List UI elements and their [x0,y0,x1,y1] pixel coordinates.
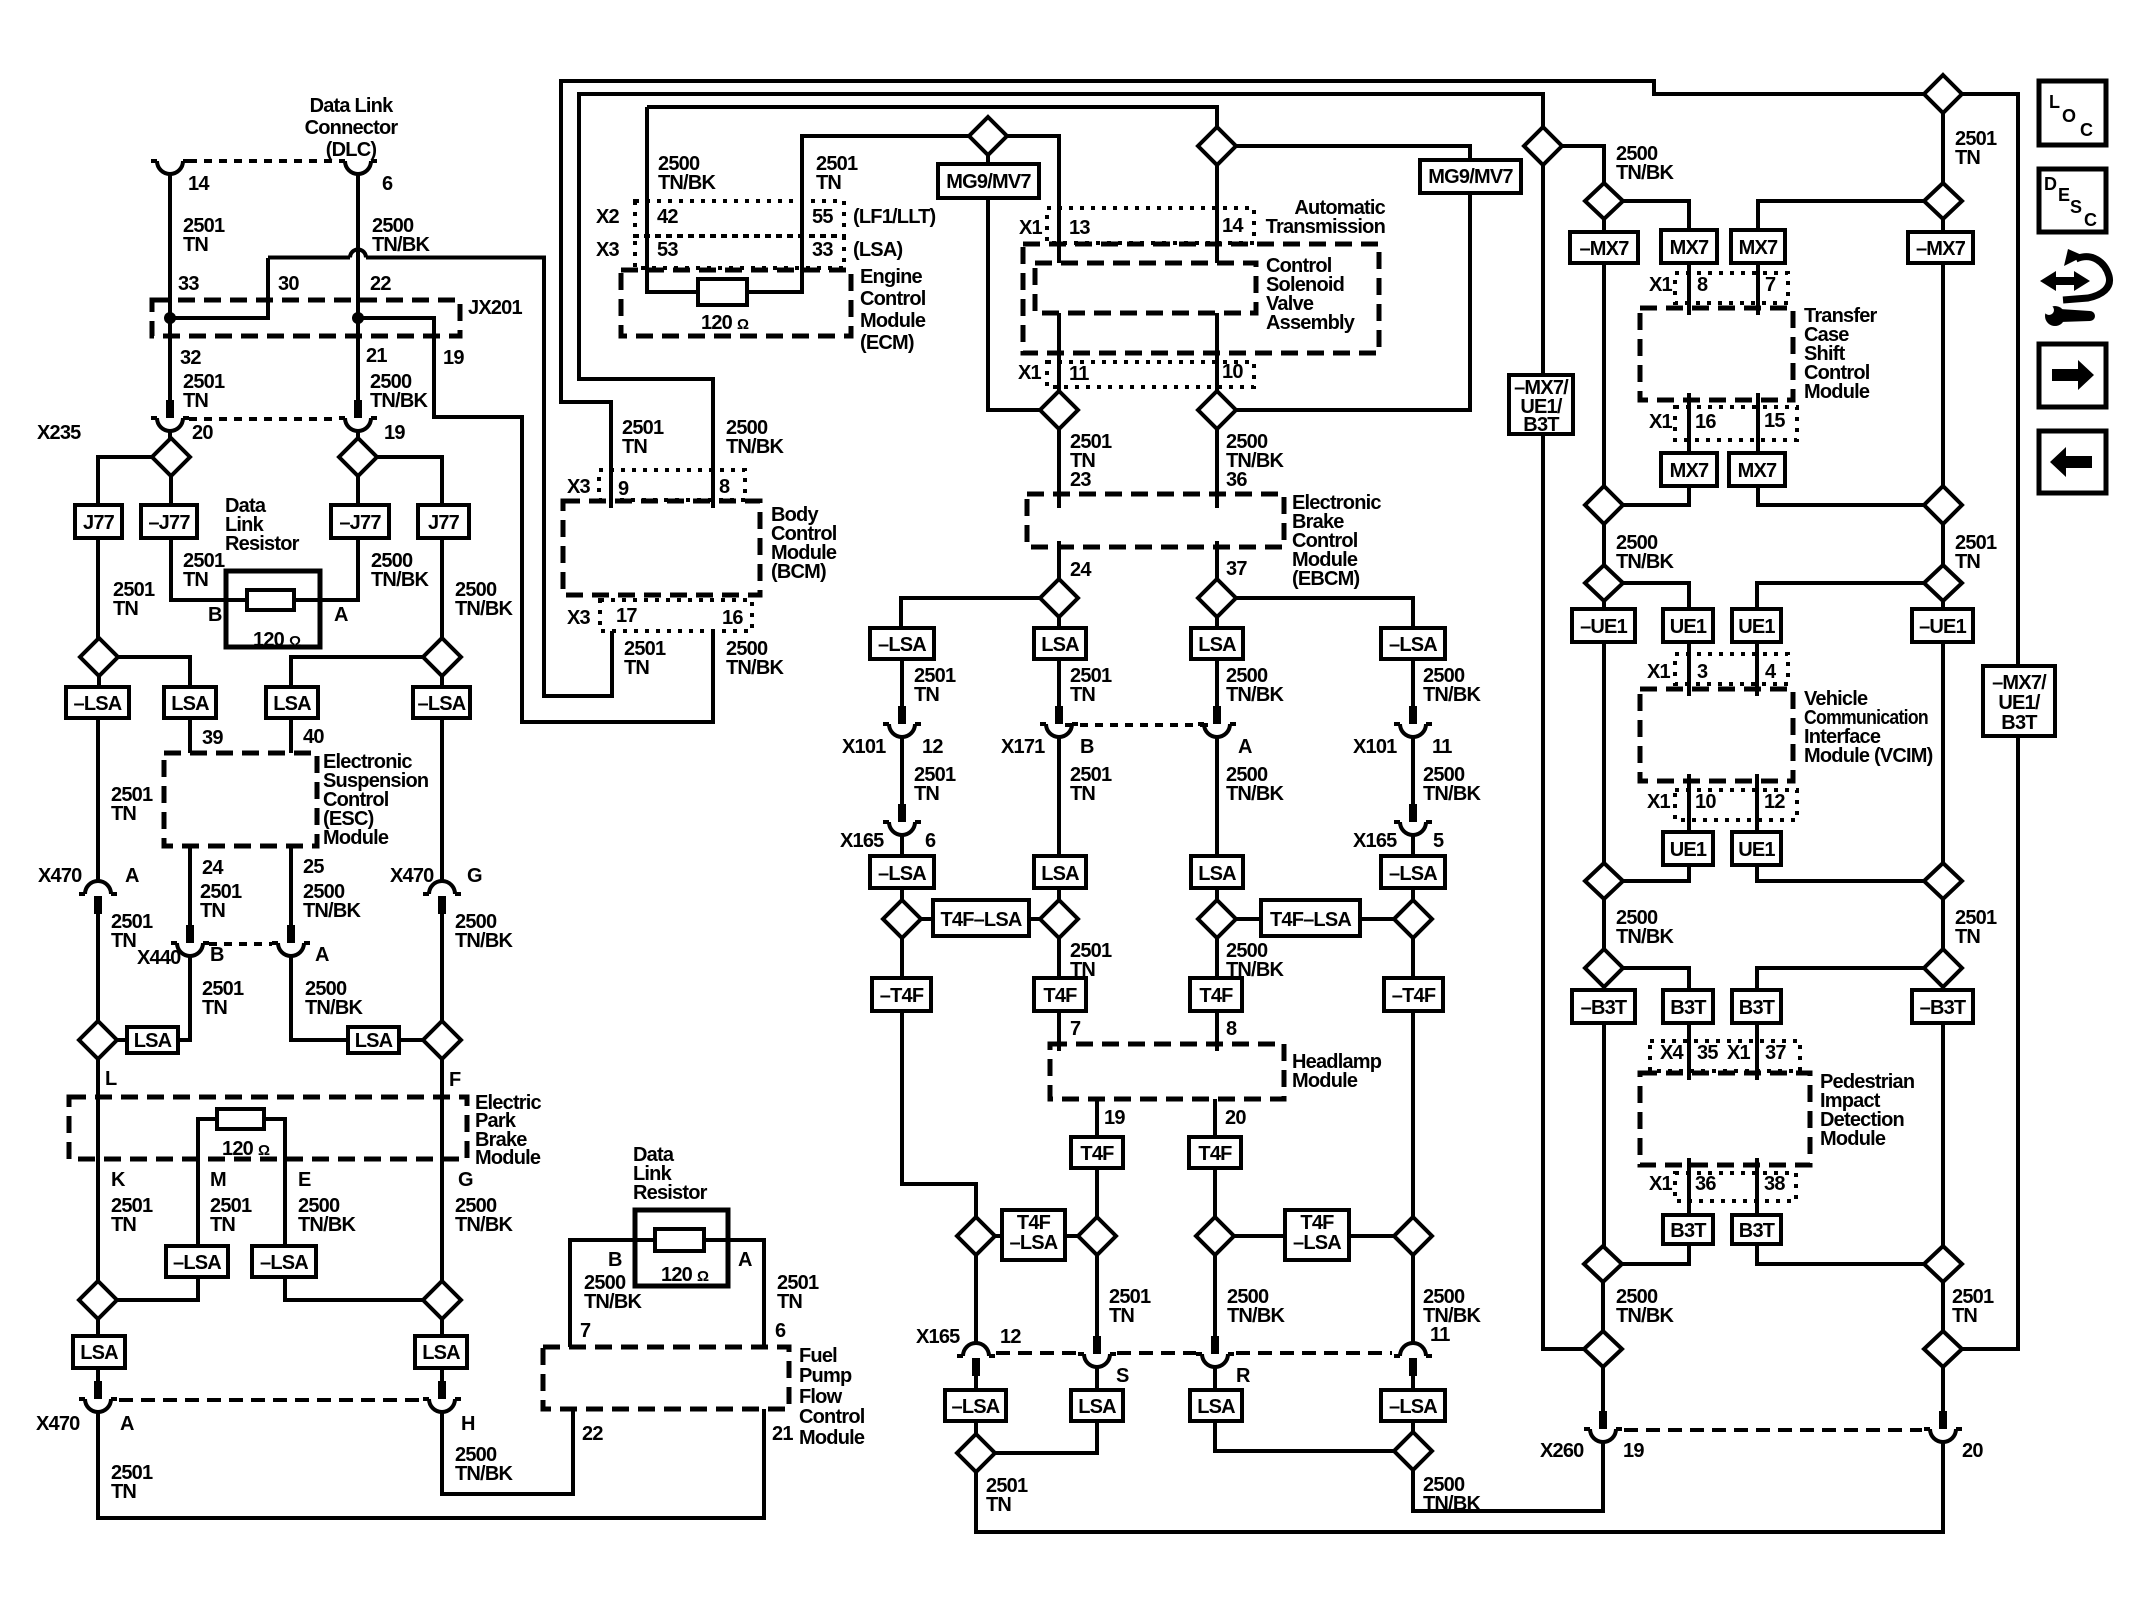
svg-text:H: H [461,1413,475,1435]
splice diamond B3T row x1604 [1585,949,1623,987]
svg-text:X1: X1 [1649,274,1673,296]
wire B3T pin38 down right to diamond [1757,1244,1924,1264]
wire X101-11 to X165-5 [1411,737,1415,804]
splice diamond 2500 bottom x1413 [1394,1432,1432,1470]
svg-text:UE1: UE1 [1670,616,1707,638]
svg-text:Resistor: Resistor [633,1182,708,1204]
wire diamond left branch to LSA pin40 [291,657,423,687]
wire X171-B down to LSA row2 [1057,737,1061,856]
svg-text:7: 7 [1070,1018,1081,1040]
splice diamond T4F row x902 [883,900,921,938]
wire LSA to X470-A bottom [96,1368,100,1381]
tag box -LSA row2 x902 [870,856,934,888]
wire EPB pin M down to -LSA [196,1159,200,1246]
svg-text:S: S [1116,1365,1129,1387]
tag box T4F pin19 [1071,1137,1123,1168]
wire diamond x1215 to pin R [1213,1255,1217,1336]
wire diamond to transmission pin 13 [1007,136,1059,263]
module box Pedestrian Impact Detection Module [1640,1073,1810,1165]
splice diamond EBCM 24 [1040,579,1078,617]
svg-text:X101: X101 [1353,736,1397,758]
wire ESC pin24 down to X440-B [188,846,192,925]
tag box -MX7 left [1570,232,1638,263]
svg-text:X1: X1 [1647,661,1671,683]
wire LSA39 to ESC module [188,718,192,753]
svg-text:–UE1: –UE1 [1580,616,1628,638]
resistor 120 ohm element [247,590,294,610]
wire diamond to -LSA left [97,676,101,687]
svg-text:LSA: LSA [1078,1396,1116,1418]
splice diamond bottom x1097 [1078,1217,1116,1255]
svg-text:X1: X1 [1018,362,1042,384]
svg-text:B3T: B3T [1670,997,1706,1019]
wire X440-B down then left through LSA to diamond [117,956,190,1040]
svg-text:LSA: LSA [134,1030,172,1052]
svg-text:X440: X440 [137,947,181,969]
resistor 120 ohm EPB element [217,1109,264,1129]
svg-text:(ECM): (ECM) [860,332,914,354]
wire JX201 internal jumper pin32 to pin30 [170,258,268,318]
svg-text:F: F [449,1069,461,1091]
svg-text:MX7: MX7 [1670,460,1709,482]
svg-text:7: 7 [1765,274,1776,296]
svg-text:TN: TN [210,1214,235,1236]
connector X165 pin 12 mirrored terminal [957,1343,995,1376]
wire EBCM pin 24 to diamond [1057,541,1061,579]
svg-text:X4: X4 [1660,1042,1685,1064]
tag box -LSA x901 [870,628,934,659]
wire B3T pin37 into pedestrian module [1755,1023,1759,1080]
wire 2501 TN -LSA left down to X470-A [96,718,100,881]
wire UE1 pin3 into VCIM [1687,642,1691,696]
wire lower resistor leads to pins 7 and 6 [570,1240,764,1347]
wire diamond down to MG9/MV7 tag [986,155,990,164]
wire UE1 pin12 down right to diamond [1757,865,1924,881]
svg-text:21: 21 [772,1423,793,1445]
svg-text:Module: Module [799,1427,865,1449]
svg-text:8: 8 [1226,1018,1237,1040]
svg-text:–LSA: –LSA [260,1252,308,1274]
svg-text:T4F–LSA: T4F–LSA [1270,909,1351,931]
svg-text:TN: TN [624,657,649,679]
resistor data link resistor outer box [226,571,320,647]
svg-text:–LSA: –LSA [952,1396,1000,1418]
svg-text:LSA: LSA [273,693,311,715]
svg-text:X470: X470 [390,865,434,887]
splice diamond EBCM 37 [1198,579,1236,617]
tag box -B3T left [1572,990,1635,1023]
svg-text:12: 12 [1764,791,1785,813]
tag box T4F x1217 [1190,978,1242,1011]
svg-text:B3T: B3T [1523,414,1559,436]
svg-text:X101: X101 [842,736,886,758]
module box Engine Control Module ECM [621,270,851,336]
svg-text:MG9/MV7: MG9/MV7 [946,171,1031,193]
wire diamond x1604 right branch to UE1 pin3 [1623,583,1689,609]
tag box LSA bottom right [415,1336,467,1368]
svg-text:B3T: B3T [1739,997,1775,1019]
splice diamond K [79,1281,117,1319]
svg-text:Assembly: Assembly [1266,312,1356,334]
tag box -MX7/UE1/B3T left [1509,375,1573,434]
svg-text:TN/BK: TN/BK [455,930,513,952]
svg-text:T4F: T4F [1043,985,1077,1007]
svg-text:MX7: MX7 [1739,237,1778,259]
svg-text:UE1: UE1 [1738,839,1775,861]
svg-text:X260: X260 [1540,1440,1584,1462]
wire diamond right branch to LSA pin39 [118,657,190,687]
wire diamond x1943 down to -UE1 [1941,601,1945,609]
connector X470 A bottom terminal [79,1381,117,1412]
svg-text:B: B [608,1249,622,1271]
svg-text:X2: X2 [596,206,620,228]
svg-text:39: 39 [202,727,223,749]
wire diamond to transmission pin 14 [1215,165,1219,263]
svg-text:–LSA: –LSA [878,863,926,885]
tag box -LSA pin M [166,1246,228,1277]
wire diamond x1943 left branch to B3T pin37 [1757,968,1924,990]
wire diamond K to LSA [96,1319,100,1336]
svg-text:X3: X3 [567,476,591,498]
svg-text:6: 6 [775,1320,786,1342]
icon box right arrow [2039,344,2106,407]
svg-text:53: 53 [657,239,678,261]
wire diamond F through EPB module [440,1059,444,1281]
wire MG9/MV7 right bottom to diamond at solenoid 10 [1236,193,1470,410]
splice diamond below pedestrian x1603 [1584,1246,1622,1282]
svg-text:A: A [1238,736,1252,758]
svg-text:LSA: LSA [171,693,209,715]
svg-text:TN: TN [816,172,841,194]
svg-text:TN: TN [183,569,208,591]
svg-text:(BCM): (BCM) [771,561,826,583]
svg-text:–LSA: –LSA [1293,1232,1341,1254]
wire pin S to LSA bottom [1095,1367,1099,1390]
splice diamond G [423,1281,461,1319]
svg-text:30: 30 [278,273,299,295]
svg-text:Module: Module [323,827,389,849]
module box Transfer Case Shift Control Module [1640,308,1793,400]
svg-text:T4F–LSA: T4F–LSA [940,909,1021,931]
wire T4F x1059 to headlamp pin 7 [1057,1011,1061,1051]
svg-text:J77: J77 [83,512,115,534]
svg-text:MG9/MV7: MG9/MV7 [1428,166,1513,188]
svg-text:LSA: LSA [1041,863,1079,885]
wire LSA to X470-H bottom [440,1368,444,1381]
tag box MX7 pin16 [1661,453,1717,486]
wire diamond x1604 down to -UE1 [1602,601,1606,609]
wire X165-11 to -LSA bottom [1411,1376,1415,1390]
tag box -UE1 right [1912,609,1973,642]
wire -J77 right down to data link resistor [320,538,358,600]
svg-text:C: C [2080,120,2093,140]
wire X260 dashed connector line [1624,1428,1922,1432]
icon harness squiggle outline [2063,257,2110,300]
wire 2501 TN x=2018 below box down and left into diamond [1962,736,2018,1349]
svg-text:B3T: B3T [1670,1220,1706,1242]
svg-text:TN: TN [622,436,647,458]
svg-text:R: R [1236,1365,1251,1387]
svg-text:19: 19 [1623,1440,1644,1462]
wire diamond x1603 to X260-19 [1601,1367,1605,1411]
wire 2500 TN/BK second top bus from BCM pin 8 to x=1543 column [579,94,1543,508]
module box Body Control Module BCM [563,501,760,595]
svg-text:TN/BK: TN/BK [1616,551,1674,573]
wire -J77 left down to data link resistor [171,538,226,600]
svg-text:Resistor: Resistor [225,533,300,555]
svg-text:X3: X3 [567,607,591,629]
tag box MX7 pin8 [1661,230,1717,263]
wire X470 bottom dashed connector line [119,1398,423,1402]
wire diamond 24 left branch to -LSA [901,598,1040,628]
wire -LSA x1413 to diamond [1411,1421,1415,1432]
wire B3T pin35 into pedestrian module [1687,1023,1691,1080]
svg-text:MX7: MX7 [1670,237,1709,259]
icon box left arrow [2039,431,2106,493]
tag box J77 right [418,505,469,538]
wire DLC dotted connector line [189,159,339,163]
svg-text:22: 22 [370,273,391,295]
wire y107 bus ECM to transmission diamond [647,107,1217,127]
svg-text:A: A [125,865,139,887]
svg-text:X3: X3 [596,239,620,261]
svg-text:TN/BK: TN/BK [658,172,716,194]
svg-text:32: 32 [180,347,201,369]
splice diamond x1543 top [1524,127,1562,165]
wire -UE1 left down to diamond [1602,642,1606,863]
svg-text:X165: X165 [916,1326,960,1348]
connector row X1 bottom of pedestrian module [1675,1173,1796,1201]
wire UE1 pin4 into VCIM [1755,642,1759,696]
svg-text:TN/BK: TN/BK [371,569,429,591]
wire diamond to diamond B3T x1943 [1941,899,1945,949]
svg-text:20: 20 [192,422,213,444]
wire 2501 TN X235-20 to splice diamond [168,431,172,438]
splice diamond ECM 2501 [969,117,1007,155]
tag box -LSA x1413 [1381,628,1445,659]
svg-text:(EBCM): (EBCM) [1292,568,1360,590]
svg-text:35: 35 [1697,1042,1718,1064]
svg-text:3: 3 [1697,661,1708,683]
wire 2500 TN/BK X235-19 to splice diamond [356,431,360,438]
svg-text:10: 10 [1222,361,1243,383]
wire diamond x1943 down to -MX7 [1941,219,1945,232]
splice diamond x1943 below transfer case [1924,486,1962,524]
wire LSA x1217 to X171-A connector [1215,659,1219,706]
wire 2501 TN top bus from BCM pin 9 to right diamond [561,81,1924,508]
wire -B3T left down to diamond [1602,1023,1606,1246]
wire diamond x1604 right branch to B3T pin35 [1623,968,1689,990]
tag box B3T pin37 [1732,990,1781,1023]
svg-text:Pump: Pump [799,1365,852,1387]
tag box T4F-LSA left [921,917,1040,921]
svg-text:Flow: Flow [799,1386,843,1408]
svg-text:TN/BK: TN/BK [455,1214,513,1236]
splice diamond X260 row x1943 [1924,1331,1962,1367]
splice diamond left 2501 at y657 [80,638,118,676]
wire ESC pin25 down to X440-A [289,846,293,925]
svg-text:TN: TN [111,803,136,825]
svg-text:16: 16 [1695,411,1716,433]
wire solenoid pin 10 down to diamond [1215,313,1219,391]
svg-text:TN/BK: TN/BK [1423,1493,1481,1515]
wire diamond to J77 right [377,457,442,505]
wire diamond to diamond x1604 [1602,524,1606,565]
svg-text:X1: X1 [1647,791,1671,813]
wire pedestrian pin38 down to B3T [1755,1158,1759,1215]
tag box UE1 pin4 [1732,609,1781,642]
icon wrench [2044,305,2095,326]
splice diamond right 2500 at y657 [423,638,461,676]
svg-text:Module: Module [1292,1070,1358,1092]
wire pedestrian pin36 down to B3T [1687,1158,1691,1215]
splice diamond 2501 below solenoid [1040,391,1078,429]
svg-text:24: 24 [202,857,224,879]
tag box -MX7 right [1908,232,1973,263]
svg-text:B: B [208,604,222,626]
wire J77 left down to diamond [96,538,100,638]
svg-text:8: 8 [719,476,730,498]
svg-text:TN: TN [111,1214,136,1236]
svg-text:–UE1: –UE1 [1919,616,1967,638]
wire headlamp pin 20 to T4F [1213,1099,1217,1137]
wire VCIM pin10 down to UE1 [1687,774,1691,832]
svg-text:15: 15 [1764,410,1785,432]
wire MX7 pin15 down right to diamond x1943 [1758,486,1924,505]
connector X165 pin 11 mirrored terminal [1394,1343,1432,1376]
svg-text:TN/BK: TN/BK [1616,1305,1674,1327]
wire solenoid pin 11 down to diamond [1057,313,1061,391]
wire diamond x1059 to T4F [1057,938,1061,978]
wire EBCM pin 37 to diamond [1215,541,1219,579]
svg-text:TN/BK: TN/BK [1616,162,1674,184]
wire MX7 pin16 down left to diamond x1604 [1623,486,1689,505]
wire -LSA x1413 to X101-11 connector [1411,659,1415,706]
wire B3T pin36 down left to diamond [1622,1244,1689,1264]
icon box DESC [2039,169,2106,232]
splice diamond 2501 bottom x976 [957,1434,995,1472]
svg-text:TN: TN [183,234,208,256]
tag box -LSA bottom x1413 [1381,1390,1445,1421]
tag box B3T pin38 [1732,1215,1781,1244]
tag box B3T pin36 [1663,1215,1713,1244]
tag box LSA inline left [127,1027,178,1053]
wire -UE1 right down to diamond [1941,642,1945,863]
wire T4F pin20 to diamond [1213,1168,1217,1217]
svg-text:16: 16 [722,607,743,629]
svg-text:X470: X470 [38,865,82,887]
svg-text:Module: Module [475,1147,541,1169]
svg-text:TN: TN [1955,147,1980,169]
svg-text:UE1/: UE1/ [1998,692,2041,714]
tag box T4F -LSA two line right [1234,1234,1394,1238]
tag box -J77 right [331,505,389,538]
svg-text:D: D [2044,174,2057,194]
svg-text:8: 8 [1697,274,1708,296]
svg-text:E: E [2058,185,2070,205]
svg-text:TN: TN [1070,684,1095,706]
splice diamond X260 row x1603 [1584,1331,1622,1367]
svg-text:Module: Module [1804,381,1870,403]
connector X165 pin S terminal [1078,1336,1116,1367]
svg-text:JX201: JX201 [468,297,523,319]
icon box LOC [2039,81,2106,145]
svg-text:11: 11 [1069,363,1089,385]
svg-text:–B3T: –B3T [1581,997,1627,1019]
wire diamond 37 right branch to -LSA [1236,598,1413,628]
tag box UE1 pin12 [1732,832,1781,865]
svg-text:37: 37 [1765,1042,1786,1064]
svg-text:MX7: MX7 [1738,460,1777,482]
wire transfer case pin15 down to MX7 [1756,393,1760,453]
wire diamond x1943 left branch to UE1 pin4 [1757,583,1924,609]
svg-text:(LSA): (LSA) [853,239,902,261]
connector X470 A mirrored terminal [79,881,117,914]
wire LSA40 to ESC module [289,718,293,753]
wire X165-12 to -LSA bottom [974,1376,978,1390]
splice diamond L [79,1021,117,1059]
svg-text:Data Link: Data Link [310,95,394,117]
wire -MX7 left down to diamond [1602,263,1606,486]
splice diamond below VCIM x1943 [1924,863,1962,899]
svg-text:TN: TN [113,598,138,620]
tag box MX7 pin7 [1731,230,1785,263]
svg-text:25: 25 [303,856,324,878]
svg-text:38: 38 [1764,1173,1785,1195]
wire X171 dotted connector line [1065,723,1211,727]
wire -LSA x901 to X101-12 connector [900,659,904,706]
tag box LSA x1217 [1191,628,1243,659]
module box Vehicle Communication Interface Module VCIM [1640,689,1793,781]
svg-text:11: 11 [1430,1324,1450,1346]
resistor 120 ohm element lower [655,1229,704,1251]
node junction dot JX201 pin21 jumper [352,312,364,324]
icon harness double arrow [2040,271,2090,291]
svg-text:–LSA: –LSA [1389,1396,1437,1418]
svg-text:120Ω: 120Ω [701,312,749,334]
svg-text:TN/BK: TN/BK [726,657,784,679]
tag box T4F-LSA right [1236,917,1394,921]
splice diamond bottom x1215 [1196,1217,1234,1255]
wire -MX7/UE1/B3T left down to corner at diamond row [1543,434,1584,1349]
svg-text:O: O [2062,106,2076,126]
tag box LSA row2 x1217 [1191,856,1243,888]
svg-text:TN/BK: TN/BK [1423,783,1481,805]
wire -T4F x1413 down to bottom diamond [1411,1011,1415,1217]
tag box -LSA right col [413,687,470,718]
tag box LSA row2 x1059 [1034,856,1086,888]
wire diamond to diamond x1603 [1601,1282,1605,1331]
svg-text:X171: X171 [1001,736,1045,758]
wire LSA S down then left to diamond x976 [995,1421,1097,1453]
wire diamond x1217 to T4F [1215,938,1219,978]
svg-text:TN/BK: TN/BK [584,1291,642,1313]
wire X440-A down then right through LSA to diamond [291,956,423,1040]
tag box MX7 pin15 [1729,453,1785,486]
wire resistor internal leads [226,598,320,602]
node junction dot JX201 pin32 jumper [164,312,176,324]
svg-text:TN: TN [202,997,227,1019]
svg-text:–MX7: –MX7 [1579,238,1629,260]
wire X235 dotted connector line [189,417,339,421]
svg-text:X1: X1 [1649,1173,1673,1195]
splice diamond 2500 below solenoid [1198,391,1236,429]
svg-text:TN: TN [183,390,208,412]
svg-text:7: 7 [580,1320,591,1342]
connector row X1 top of solenoid assembly [1047,208,1254,243]
splice diamond MX7 row x1943 [1924,183,1962,219]
svg-text:Fuel: Fuel [799,1345,837,1367]
